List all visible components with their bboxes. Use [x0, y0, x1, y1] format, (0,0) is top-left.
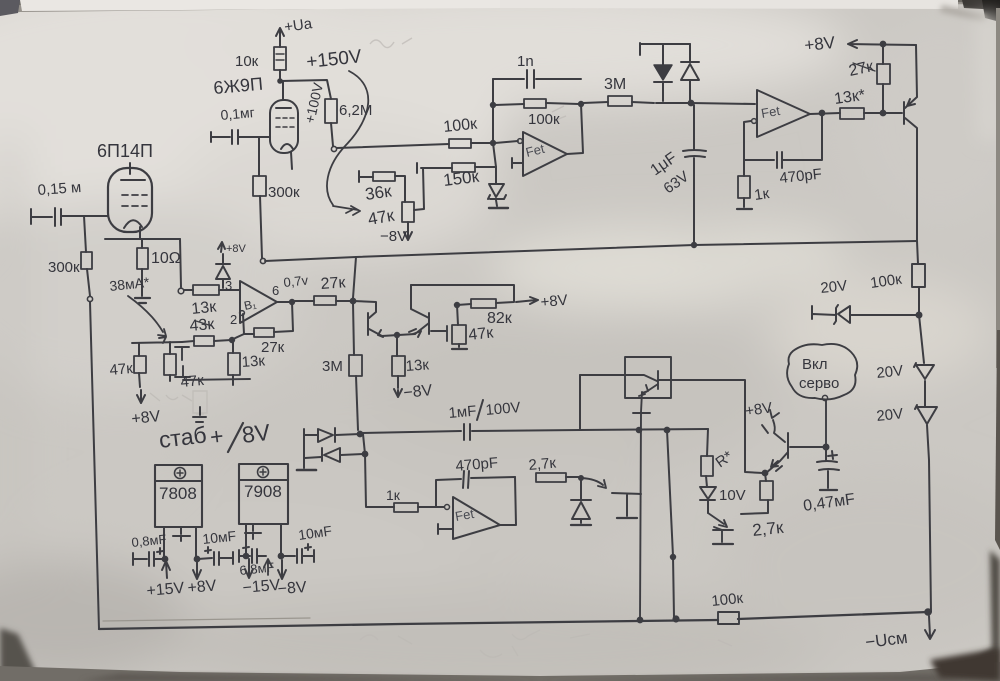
- resistor 2,7к (feedback out): [528, 455, 581, 482]
- resistor 10к anode: [235, 40, 286, 81]
- label +100V rotated: [301, 81, 326, 125]
- wire arrow to thyristor: [582, 478, 606, 488]
- resistor R*: [701, 429, 736, 487]
- capacitor 10μF (7808): [195, 528, 237, 565]
- capacitor 1μF 63V: [648, 105, 706, 243]
- regulator 7908: [239, 464, 288, 524]
- svg-text:13к: 13к: [191, 298, 218, 318]
- svg-text:3М: 3М: [604, 76, 626, 93]
- wire cathode to B1 input node: [178, 239, 184, 294]
- wire 6,2М to node: [331, 123, 337, 152]
- resistor 43к: [182, 316, 244, 346]
- wire opto input: [579, 375, 581, 430]
- capacitor 0,8μF: [131, 531, 167, 566]
- rail corner down to 100к: [917, 241, 918, 264]
- svg-text:3: 3: [225, 278, 232, 293]
- wire diode top bracket: [640, 43, 690, 55]
- thyristor Q6: [612, 493, 641, 518]
- resistor 13к B1 input: [184, 285, 240, 318]
- wire emitters: [382, 334, 415, 336]
- transistor Q1 (top right PNP): [904, 45, 917, 240]
- rail junction nodes: [638, 609, 931, 622]
- op-amp U5 Fet: [438, 497, 500, 539]
- svg-text:1n: 1n: [517, 53, 534, 70]
- wire op-amp1 output: [567, 102, 608, 154]
- +Ua arrow: [276, 15, 314, 40]
- svg-text:0,7v: 0,7v: [283, 272, 310, 290]
- svg-text:10к: 10к: [235, 53, 259, 70]
- op-amp U3 B1: [225, 278, 279, 327]
- svg-text:+15V: +15V: [146, 580, 185, 600]
- svg-text:300к: 300к: [268, 184, 300, 201]
- svg-text:−8V: −8V: [380, 228, 407, 245]
- svg-text:6: 6: [272, 283, 279, 298]
- svg-text:10V: 10V: [719, 487, 746, 504]
- svg-text:2,7к: 2,7к: [528, 455, 557, 474]
- svg-text:10Ω: 10Ω: [151, 250, 181, 267]
- wire anode node to +150V corner: [278, 79, 331, 99]
- resistor 1к (bottom op-amp): [386, 487, 444, 512]
- resistor 27к top right: [847, 45, 890, 111]
- resistor 100к input: [443, 115, 490, 148]
- transistor Q3 PNP: [409, 285, 429, 337]
- wire Q3 base stub: [431, 326, 447, 341]
- op-amp U1 Fet: [512, 132, 567, 176]
- resistor 100к feedback: [491, 99, 583, 128]
- svg-text:0,1мг: 0,1мг: [220, 104, 255, 123]
- resistor 300k (left): [48, 252, 92, 276]
- svg-text:+8V: +8V: [187, 578, 218, 597]
- tube V2 6Ж9П: [270, 81, 298, 169]
- node +15V: [146, 557, 185, 600]
- 7908 pins: [245, 524, 281, 555]
- svg-text:2: 2: [230, 312, 237, 327]
- svg-text:1к: 1к: [386, 487, 401, 503]
- zener 20V horizontal: [812, 277, 922, 324]
- node A op-amp1 inverting: [491, 79, 518, 167]
- svg-text:47к: 47к: [180, 372, 205, 391]
- node B diode junction: [656, 101, 755, 106]
- node collector Q5: [824, 445, 829, 450]
- +8V arrow small (B1): [218, 242, 247, 255]
- svg-text:20V: 20V: [876, 405, 904, 425]
- node 47к top: [455, 303, 459, 325]
- svg-text:8V: 8V: [240, 419, 272, 448]
- capacitor 0,47μF: [802, 447, 856, 515]
- svg-text:7908: 7908: [244, 482, 282, 501]
- ground below 10Ω: [135, 298, 150, 303]
- optocoupler transistor: [580, 371, 671, 396]
- bottom rail: [99, 612, 928, 629]
- svg-text:−15V: −15V: [242, 577, 281, 597]
- label 0,7v: [283, 272, 310, 290]
- resistor 2,7к (right): [741, 471, 785, 540]
- svg-text:20V: 20V: [820, 277, 848, 297]
- svg-text:+8V: +8V: [803, 33, 836, 55]
- wire op-amp2 output: [810, 111, 840, 116]
- svg-text:27к: 27к: [261, 339, 285, 356]
- resistor 150к: [417, 163, 496, 190]
- 7808 pins: [164, 527, 196, 557]
- resistor 100к (right): [869, 264, 925, 313]
- resistor 27к (B1 out to Q): [295, 274, 351, 305]
- label +150V: [305, 46, 363, 73]
- wire rail down to 27k node: [353, 257, 356, 298]
- resistor 300k (grid leak 6Ж9П): [253, 138, 300, 264]
- zener 20V (upper vertical): [876, 315, 934, 406]
- wire main node to 100k: [337, 144, 449, 148]
- diode VD6 (left): [305, 448, 363, 462]
- feedback 470pF: [436, 454, 515, 506]
- svg-text:серво: серво: [799, 375, 839, 392]
- arrow -8V (7908): [277, 560, 307, 598]
- resistor 47к (emitter Q3): [452, 324, 495, 349]
- svg-text:Вкл: Вкл: [802, 356, 828, 373]
- wire grid node to 300k: [84, 216, 86, 252]
- wire bias bottom: [183, 379, 250, 380]
- wire op-amp5 output: [500, 477, 516, 525]
- annotation S-curve: [327, 71, 368, 215]
- svg-text:6П14П: 6П14П: [97, 141, 153, 161]
- wire 300k down left rail: [87, 269, 99, 629]
- op-amp U2 Fet: [752, 90, 810, 137]
- wire B1 output: [277, 300, 294, 304]
- label 0,15м: [37, 179, 82, 199]
- diode VD3 (up): [681, 44, 699, 101]
- label -Uсм arrow: [864, 616, 935, 652]
- svg-text:13к: 13к: [405, 356, 430, 375]
- svg-text:−8V: −8V: [403, 382, 434, 402]
- wire bias node: [132, 337, 182, 343]
- svg-text:2,7к: 2,7к: [751, 518, 784, 540]
- svg-text:7808: 7808: [159, 484, 197, 503]
- feedback loop 82к: [411, 285, 514, 327]
- capacitor 10μF (7908): [279, 522, 333, 563]
- resistor 47к (second): [164, 342, 205, 391]
- ground diode pair: [297, 435, 316, 470]
- resistor 13к (vertical): [228, 338, 266, 385]
- svg-text:300к: 300к: [48, 259, 80, 276]
- resistor 6,2М: [325, 99, 372, 123]
- tube V1 6П14П: [97, 141, 153, 232]
- node D long wire down: [665, 428, 676, 617]
- svg-text:36к: 36к: [364, 181, 393, 204]
- arrow -8V mid: [394, 382, 434, 402]
- resistor 100к (bottom): [711, 590, 745, 624]
- capacitor C-in 0,15м: [31, 208, 108, 226]
- zener VD1 to ground: [488, 167, 508, 208]
- resistor 36к: [359, 171, 405, 204]
- wire opto collector: [671, 380, 763, 473]
- svg-text:3М: 3М: [322, 358, 343, 375]
- wire 150к to pot wiper: [414, 168, 424, 210]
- resistor 27к B1 feedback: [243, 302, 293, 356]
- wire cathode 6П14П: [105, 227, 180, 239]
- resistor 47к (left): [109, 343, 146, 387]
- svg-text:1к: 1к: [753, 185, 771, 204]
- capacitor 6,8мF: [239, 544, 275, 578]
- node 27к output: [351, 299, 356, 304]
- label +8V switch: [744, 399, 785, 442]
- svg-text:27к: 27к: [320, 274, 347, 293]
- wire lower diode to 1к: [365, 454, 394, 507]
- arrow +8V (7808 out): [187, 562, 218, 597]
- ground mark bias: [193, 407, 206, 422]
- zener 10V: [700, 487, 746, 513]
- diode VD7 (to ground): [571, 476, 591, 525]
- arrow +8V below 47к: [131, 390, 162, 428]
- resistor 3М (mid): [322, 303, 362, 430]
- feedback 470p op-amp2: [744, 116, 823, 187]
- label 0,1мг: [220, 104, 255, 123]
- diode VD4 to +8V (B1 pin3): [216, 254, 230, 288]
- svg-text:−8V: −8V: [277, 579, 307, 598]
- potentiometer 47к: [366, 202, 414, 229]
- svg-text:0,15 м: 0,15 м: [37, 179, 82, 199]
- resistor 13к (emitter): [392, 333, 430, 388]
- transistor Q4 (lower): [708, 513, 733, 544]
- capacitor 1μF/100V: [360, 399, 580, 440]
- svg-text:13к: 13к: [241, 352, 266, 371]
- capacitor 1n feedback: [493, 53, 581, 88]
- resistor 3М top: [604, 76, 654, 106]
- capacitor 0,1мг: [211, 130, 270, 144]
- opto emitter ground: [633, 392, 650, 619]
- label 6Ж9П: [213, 74, 264, 98]
- optocoupler U4 box: [625, 357, 671, 398]
- resistor 13к*: [833, 87, 902, 119]
- svg-text:100к: 100к: [528, 111, 560, 128]
- resistor 1к op-amp2: [737, 160, 771, 209]
- svg-text:100к: 100к: [711, 590, 745, 610]
- svg-text:20V: 20V: [876, 362, 904, 382]
- transistor Q2 NPN: [353, 301, 383, 337]
- svg-text:100к: 100к: [443, 115, 479, 136]
- svg-text:1мF: 1мF: [448, 403, 477, 422]
- label стаб +/-8V: [157, 419, 272, 453]
- svg-text:+8V: +8V: [131, 408, 162, 428]
- arrow -8V below pot: [380, 222, 412, 245]
- node C long wire left: [336, 432, 367, 457]
- svg-text:100V: 100V: [485, 399, 521, 419]
- +8V arrow top right: [803, 33, 916, 55]
- node rail to 1uF: [692, 243, 696, 247]
- arrow -15V: [242, 559, 281, 597]
- diode VD5 (right): [304, 428, 335, 442]
- svg-text:47к: 47к: [468, 324, 495, 344]
- regulator 7808: [155, 465, 202, 527]
- bubble Вкл серво: [787, 344, 857, 445]
- diode VD2 (down): [654, 44, 672, 101]
- capacitor marks at 43к left: [175, 347, 190, 377]
- zener 20V (lower vertical): [876, 405, 937, 612]
- mid feedback rail: [265, 241, 917, 261]
- label 38мА with curved arrow: [109, 274, 166, 336]
- +8V arrow (82к): [516, 292, 568, 311]
- resistor 10Ω cathode: [137, 239, 181, 296]
- svg-text:+8V: +8V: [226, 243, 247, 255]
- svg-text:+8V: +8V: [540, 292, 568, 311]
- svg-text:47к: 47к: [109, 360, 134, 379]
- transistor Q5 PNP servo: [766, 433, 824, 473]
- long wire to right: [580, 429, 708, 430]
